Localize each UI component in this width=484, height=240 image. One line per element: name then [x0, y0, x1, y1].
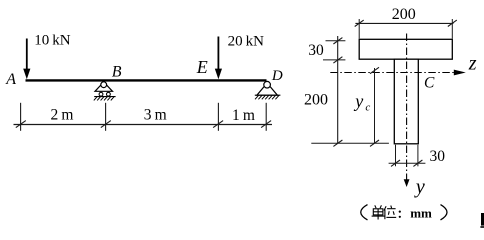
load arrow 20 kN shaft	[217, 37, 219, 72]
support D pin circle	[264, 81, 271, 88]
bottom 30 ext line left	[395, 145, 397, 167]
left dim slash 3	[333, 140, 342, 146]
left dim slash 2	[333, 57, 342, 63]
svg-text:c: c	[365, 102, 370, 114]
svg-text:200: 200	[392, 6, 416, 23]
top dimension line 200	[355, 22, 453, 24]
left dimension line	[337, 36, 339, 143]
extension tick at E	[217, 103, 219, 131]
beam AD	[26, 79, 267, 81]
yc slash top	[370, 67, 379, 73]
load arrow 10 kN head	[23, 69, 30, 80]
support B pin circle	[101, 82, 107, 88]
svg-text:20 kN: 20 kN	[228, 33, 265, 49]
dimension line (beam)	[14, 124, 273, 126]
y axis (dash-dot)	[406, 34, 408, 181]
bottom 30 slash left	[391, 160, 400, 166]
unit note: hanzi wei (position)	[384, 206, 396, 220]
svg-text:200: 200	[304, 92, 328, 109]
svg-text:30: 30	[308, 42, 324, 59]
svg-text:D: D	[271, 68, 283, 84]
extension tick at A	[20, 103, 22, 131]
svg-text:A: A	[5, 71, 16, 88]
left ext line flange top	[326, 40, 346, 42]
svg-text:10 kN: 10 kN	[34, 33, 71, 49]
load arrow 10 kN shaft	[26, 39, 28, 72]
unit note: fullwidth colon	[399, 211, 401, 213]
support B triangle	[95, 82, 113, 91]
corner artifact dot	[480, 226, 484, 228]
z axis arrowhead	[454, 70, 466, 76]
slash tick at D	[261, 121, 271, 128]
support B roller 1	[99, 92, 103, 96]
top dim extension left	[358, 19, 360, 39]
z axis (dash-dot)	[330, 72, 454, 74]
support B ground line	[94, 96, 115, 98]
svg-text:2 m: 2 m	[51, 107, 74, 124]
section flange outline	[359, 39, 452, 59]
left ext line flange bottom	[323, 59, 345, 61]
svg-text:30: 30	[430, 148, 446, 165]
yc slash bottom	[370, 140, 379, 146]
svg-text:y: y	[414, 176, 425, 198]
svg-text:z: z	[468, 52, 477, 74]
section web outline	[394, 59, 418, 144]
svg-text:1 m: 1 m	[232, 107, 255, 124]
bottom 30 slash right	[413, 160, 422, 166]
y axis arrowhead	[404, 179, 410, 187]
svg-text:mm: mm	[410, 205, 432, 220]
bottom ext line	[311, 142, 389, 144]
top dim slash right	[448, 20, 457, 26]
unit note: hanzi dan (single)	[372, 205, 385, 219]
support D triangle	[257, 83, 278, 95]
support D hatching	[255, 95, 279, 99]
bottom 30 dim line	[389, 162, 426, 164]
unit note: fullwidth left paren	[361, 205, 368, 220]
svg-text:E: E	[196, 57, 208, 77]
support B hatching	[94, 97, 114, 101]
yc dimension line	[374, 68, 376, 143]
svg-text:B: B	[112, 63, 122, 80]
unit note: fullwidth right paren	[441, 205, 448, 220]
top dim extension right	[451, 19, 453, 39]
support B roller 2	[107, 92, 111, 96]
extension tick at D	[265, 103, 267, 131]
slash tick at A	[16, 121, 26, 128]
slash tick at B	[101, 121, 111, 128]
svg-text:3 m: 3 m	[144, 106, 167, 123]
load arrow 20 kN head	[215, 69, 222, 80]
left dim slash 1	[333, 38, 342, 44]
top dim slash left	[355, 20, 364, 26]
extension tick at B	[105, 103, 107, 131]
bottom 30 ext line right	[417, 145, 419, 167]
slash tick at E	[213, 121, 223, 128]
support D ground line	[255, 94, 281, 96]
svg-text:C: C	[424, 75, 435, 92]
svg-text:y: y	[353, 91, 363, 111]
corner artifact bar	[481, 213, 484, 226]
